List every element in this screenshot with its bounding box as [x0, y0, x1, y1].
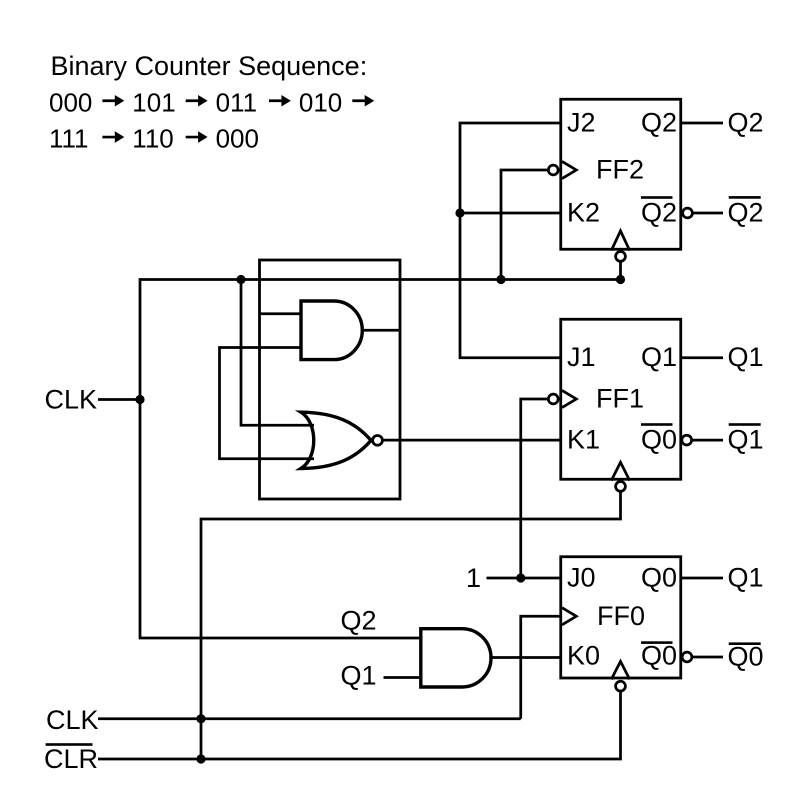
junction dot NOR branch [236, 275, 245, 284]
flip-flop FF2 box [561, 99, 681, 249]
wire: Q1-bar output [687, 439, 723, 442]
svg-text:111: 111 [49, 124, 89, 154]
svg-text:000: 000 [216, 124, 259, 154]
svg-text:J2: J2 [567, 108, 596, 138]
wire: FF0 clock down to CLK line [521, 616, 562, 719]
wire: Q1 output [681, 356, 723, 359]
wire: AND upper input [260, 312, 301, 315]
wire: FF2 clock to CLK rail [501, 170, 550, 280]
svg-text:J1: J1 [567, 342, 596, 372]
wire: CLK bottom line [98, 717, 521, 720]
wire: Q2-bar output [688, 212, 724, 215]
bubble FF1 clock [548, 394, 558, 404]
AND gate U3 (bottom, feeds K0) [421, 629, 491, 687]
svg-text:011: 011 [216, 87, 257, 117]
wire: FF1 clock down to node 1 [521, 399, 550, 578]
bubble FF0 Q0-bar output [682, 652, 692, 662]
svg-text:Q2: Q2 [641, 198, 677, 228]
svg-text:Q2: Q2 [728, 108, 764, 138]
wire: bottom AND output to K0 [491, 656, 562, 659]
wire: CLK (middle) stub [98, 398, 140, 401]
wire: Q0-bar output [687, 656, 723, 659]
svg-text:CLK: CLK [45, 385, 98, 415]
junction dot CLK mid [135, 395, 144, 404]
FF0 clock triangle (no bubble) [562, 608, 576, 625]
wire: Q2 output [681, 122, 723, 125]
title text block [49, 51, 374, 154]
svg-text:Q2: Q2 [341, 606, 377, 636]
wire: NOR top input branch [241, 280, 314, 426]
wire: CLR line up to FF0 bottom bubble [98, 682, 621, 759]
svg-text:010: 010 [299, 87, 342, 117]
wire: AND output to box edge [362, 329, 400, 332]
svg-text:101: 101 [132, 87, 175, 117]
svg-text:Q2: Q2 [728, 198, 764, 228]
wire: K2 branch [460, 212, 562, 215]
svg-text:Q1: Q1 [341, 661, 377, 691]
svg-text:Q1: Q1 [728, 342, 764, 372]
bubble FF2 Q2-bar output [683, 208, 693, 218]
wire: FF1 bottom bubble to left rail down to CLR [201, 482, 621, 759]
svg-text:FF0: FF0 [597, 601, 645, 631]
svg-text:Q0: Q0 [728, 642, 764, 672]
svg-text:K0: K0 [567, 641, 600, 671]
wire: AND lower input loop [220, 348, 315, 459]
junction dot FF2 preset rail [616, 275, 625, 284]
wire: CLK rail across to FF2 preset, down left side to AND input (Q2) [140, 280, 621, 639]
svg-text:110: 110 [132, 124, 173, 154]
FF2 bottom preset triangle [611, 231, 629, 251]
svg-text:Q0: Q0 [641, 563, 677, 593]
svg-text:Q0: Q0 [641, 425, 677, 455]
svg-text:000: 000 [49, 87, 92, 117]
FF2 clock triangle [562, 161, 576, 178]
bubble FF0 bottom [616, 681, 626, 691]
junction dot K2 [455, 208, 464, 217]
svg-text:CLR: CLR [44, 744, 98, 774]
junction dot node 1 [516, 573, 525, 582]
svg-text:Q1: Q1 [641, 342, 677, 372]
svg-text:Q0: Q0 [641, 641, 677, 671]
wire: constant 1 to J0 [487, 577, 563, 580]
svg-text:Binary Counter Sequence:: Binary Counter Sequence: [51, 51, 368, 81]
bubble FF2 bottom [616, 252, 626, 262]
wire: FF2 bottom bubble stub [619, 252, 622, 280]
combinational logic box [260, 260, 401, 499]
wire: J2/K2/J1 shared vertical [460, 123, 562, 358]
svg-text:Q2: Q2 [641, 108, 677, 138]
svg-text:J0: J0 [567, 563, 596, 593]
wire: NOR output to K1 [378, 439, 562, 442]
junction dot FF2 clock rail [496, 275, 505, 284]
FF0 bottom preset triangle [611, 661, 629, 679]
bubble FF2 clock [548, 165, 558, 175]
svg-text:Q1: Q1 [728, 563, 764, 593]
AND gate U1 (inside logic box) [301, 301, 362, 360]
FF1 bottom preset triangle [611, 462, 629, 480]
FF1 clock triangle [562, 390, 576, 407]
bubble FF1 Q1-bar output [682, 435, 692, 445]
svg-text:K2: K2 [567, 198, 600, 228]
bubble FF1 bottom [616, 482, 626, 492]
flip-flop FF1 box [561, 319, 681, 479]
svg-text:FF2: FF2 [596, 155, 644, 185]
svg-text:Q1: Q1 [728, 425, 764, 455]
bubble NOR output [373, 435, 383, 445]
wire: Q1 stub to AND input [384, 676, 421, 679]
wire: Q0 output [681, 577, 723, 580]
svg-text:FF1: FF1 [596, 384, 644, 414]
svg-text:1: 1 [466, 563, 481, 593]
flip-flop FF0 box [561, 557, 681, 678]
junction dot CLR [196, 754, 205, 763]
svg-text:K1: K1 [567, 425, 600, 455]
svg-text:CLK: CLK [46, 705, 99, 735]
NOR gate U2 (inside logic box) [301, 412, 371, 468]
junction dot CLK bottom [196, 714, 205, 723]
